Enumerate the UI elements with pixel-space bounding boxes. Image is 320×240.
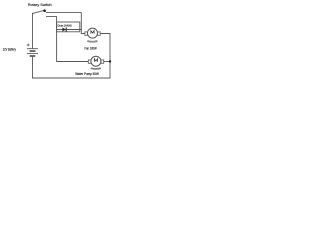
motor M2 water pump (88, 56, 103, 69)
diode callout box (57, 22, 80, 32)
wire battery negative down (32, 57, 34, 79)
battery plus sign (27, 44, 29, 47)
wire bottom return rail (33, 77, 111, 79)
rotary switch SW1 lever (33, 10, 45, 13)
wire water pump right to rail (104, 61, 110, 63)
wire fan right to rail (100, 34, 110, 79)
wire throw 1 to fan branch (47, 13, 85, 34)
svg-text:12V Battery: 12V Battery (3, 47, 16, 51)
svg-text:Rotary Switch: Rotary Switch (28, 3, 52, 7)
wire diode branch (57, 29, 82, 31)
node junction pump/rail (109, 60, 111, 62)
svg-text:Water Pump 50W: Water Pump 50W (75, 72, 99, 76)
wire throw 2 down to water pump branch (47, 17, 89, 62)
motor M2 base shadow (91, 67, 101, 70)
rotary switch SW1 pole knee (32, 13, 34, 15)
motor M1 base shadow (87, 40, 97, 43)
diode D1 symbol (62, 27, 66, 31)
rotary switch SW1 contact dot (43, 9, 46, 12)
motor M1 letter M (91, 31, 94, 34)
svg-text:Fan 100W: Fan 100W (85, 47, 97, 51)
motor M2 letter M (94, 59, 97, 62)
svg-text:Diode 1N4148: Diode 1N4148 (58, 23, 72, 27)
motor M1 fan (85, 28, 100, 42)
wire battery positive up to switch pole (32, 13, 34, 48)
battery BT1 12V (27, 44, 38, 56)
